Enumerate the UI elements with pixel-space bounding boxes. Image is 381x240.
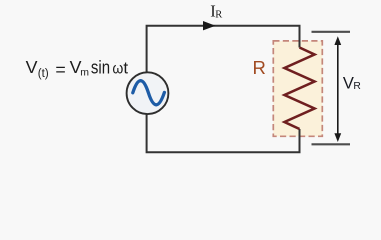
voltage double arrow V_R: [334, 36, 341, 142]
wire bottom: [147, 114, 300, 152]
voltage marker top bar: [312, 31, 351, 33]
svg-text:V: V: [26, 57, 38, 77]
source label V(t) = Vm sin wt: [26, 57, 129, 80]
svg-text:t: t: [123, 59, 128, 78]
svg-text:V: V: [343, 75, 354, 93]
AC source V1 circle: [127, 72, 169, 114]
svg-text:R: R: [215, 9, 222, 20]
svg-text:ω: ω: [112, 61, 123, 78]
resistor R zigzag: [285, 48, 315, 130]
current arrow on top wire: [203, 21, 216, 30]
svg-text:m: m: [80, 67, 89, 79]
AC source sine wave: [133, 81, 165, 105]
svg-text:(t): (t): [38, 68, 49, 80]
voltage marker bottom bar: [312, 143, 351, 145]
svg-text:=: =: [55, 60, 65, 80]
label I_R: [210, 2, 222, 21]
resistor highlight box (dashed): [273, 41, 322, 136]
wire top: [147, 26, 300, 73]
label V_R: [343, 75, 361, 93]
svg-text:R: R: [353, 81, 360, 92]
svg-text:R: R: [253, 57, 266, 78]
svg-text:sin: sin: [91, 57, 110, 78]
